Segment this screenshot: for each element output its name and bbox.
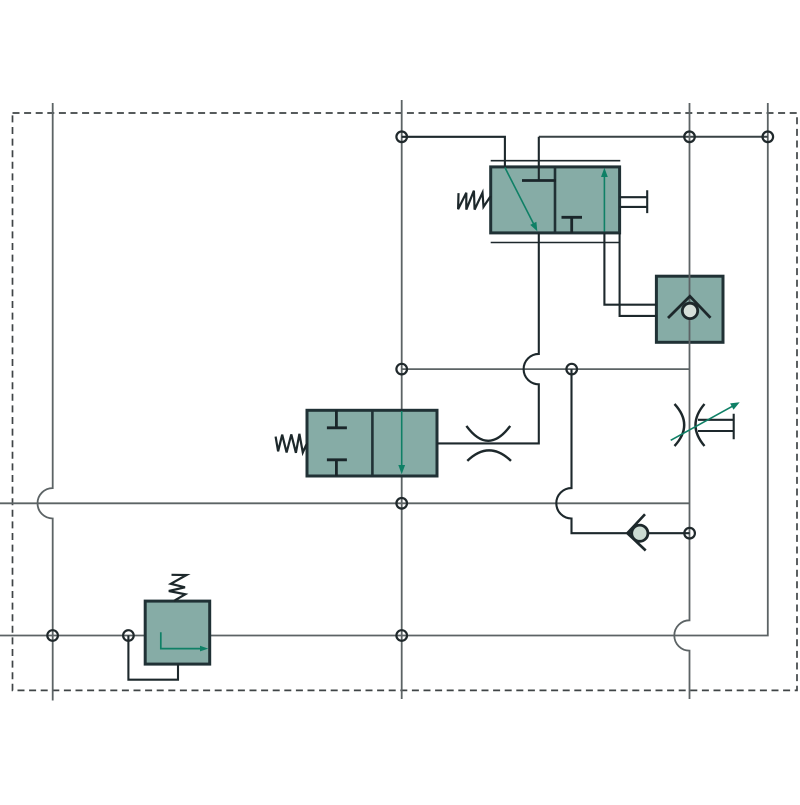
valve U1 body (top 4/2 directional valve): [491, 167, 620, 233]
thin line above valve U1: [491, 160, 621, 162]
thin line below valve U1: [491, 242, 620, 244]
wire: U1 bottom port (x=604) L-shape to check valve box: [604, 233, 656, 305]
node A junction (402,137): [396, 132, 407, 143]
wire: middle rail y=369: [402, 368, 690, 370]
node I junction (128.4,635.5): [123, 630, 134, 641]
valve U2 blocked T top (left chamber): [327, 410, 347, 428]
wire: left tank line V1 with hop over y=503 rail: [38, 103, 53, 701]
relief valve V6 spring (top): [169, 575, 187, 601]
valve U1 arrow (diagonal, left chamber): [505, 168, 537, 232]
check valve V5 seat (^): [668, 296, 711, 318]
node F junction (402,503): [396, 498, 407, 509]
relief valve V6 body: [145, 601, 210, 664]
node G junction (690,533): [684, 528, 695, 539]
wire: center vertical line V2 x=402: [401, 100, 403, 699]
node H junction (52.5,635.5): [47, 630, 58, 641]
wire: port line from node A (402,137) to valve U1 top-left port: [402, 137, 505, 167]
node C junction (768,137): [763, 132, 774, 143]
valve U2 body (middle 2/2 valve): [307, 410, 437, 476]
wire: U1 right-edge port down L-shape to check valve box: [620, 233, 657, 316]
adjustable throttle V8 arcs on line x=689.5: [675, 404, 705, 446]
wire: from mid-rail node (571.7,369) down with hop over y=503 rail, to bottom check valve: [556, 369, 689, 533]
valve U1 arrow (up, right chamber): [601, 168, 608, 232]
node D junction (402,369): [396, 364, 407, 375]
wire: U1 bottom-left port down, hop over rail y=369, to throttle line corner: [437, 233, 539, 444]
node B junction (689.5,137): [684, 132, 695, 143]
wire: top rail y=136.8 right segment: [539, 136, 768, 138]
throttle V8 stem lines right: [698, 414, 734, 440]
throttle V8 adjust arrow (green diagonal): [671, 402, 740, 440]
valve U2 blocked T bottom (left chamber): [327, 460, 347, 476]
spring on valve U2 left: [276, 434, 307, 453]
wire: port stub from top rail into valve U1 (blocked T): [538, 137, 540, 181]
check valve V7 ball: [632, 525, 648, 541]
check valve V5 body (pilot check valve, teal box): [656, 276, 723, 342]
node E junction (572,369): [566, 364, 577, 375]
spring on valve U1 left: [458, 191, 491, 210]
pusher actuator on valve U1 right: [620, 190, 648, 213]
relief valve V6 pilot line: [128, 636, 178, 680]
wire: vertical V3 x=689.5 with hop over bottom rail: [674, 103, 689, 699]
throttle arcs right of U2: [466, 426, 511, 461]
check valve V7 seat (<): [627, 514, 645, 550]
node J junction (402,635.5): [396, 630, 407, 641]
relief valve V6 internal arrow (green L): [161, 632, 209, 651]
wire: right vertical V4 + bottom rail y=635.5: [0, 103, 768, 636]
enclosure dashed border: [13, 113, 798, 690]
blocked port T inside U1 left chamber: [522, 179, 556, 182]
wire: rail y=503.3: [0, 502, 690, 504]
check valve V5 ball: [682, 303, 697, 318]
valve U2 arrow (down, right chamber): [398, 411, 405, 474]
blocked port T inside U1 right chamber: [562, 217, 583, 233]
